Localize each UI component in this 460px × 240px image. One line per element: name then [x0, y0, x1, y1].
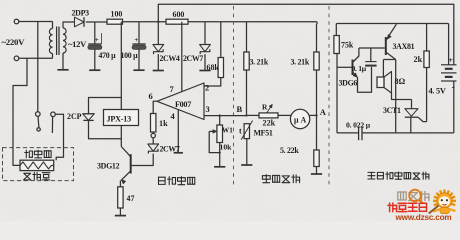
wire: 47 to ground — [119, 208, 121, 216]
wire: battery negative lead — [453, 81, 455, 133]
wire: collector coupling to 3AX81 base — [359, 47, 385, 49]
section divider 2 dashed — [328, 6, 330, 189]
svg-text:0. 022 μ: 0. 022 μ — [346, 121, 371, 130]
wire: 2k bottom to gate — [426, 68, 428, 122]
wire: emitter to 47 — [119, 181, 121, 187]
wire: W1 bottom lead — [219, 143, 221, 167]
capacitor C2 100u electrolytic — [132, 43, 145, 45]
svg-text:+: + — [449, 56, 454, 65]
wire: 5.22k to ground — [316, 167, 318, 175]
zener 2CW7 second — [148, 143, 159, 145]
potentiometer W1 wiper arrow — [209, 130, 215, 132]
node: W1 top junction — [219, 114, 221, 116]
relay contact K1 fixed right — [51, 112, 56, 117]
svg-text:2DP3: 2DP3 — [72, 9, 90, 18]
svg-text:100 μ: 100 μ — [121, 51, 139, 60]
wire: speaker top tap — [383, 59, 395, 61]
svg-text:75k: 75k — [341, 41, 354, 50]
transistor Q1 3DG12 collector — [121, 147, 130, 157]
svg-text:2CW7: 2CW7 — [160, 145, 180, 154]
zener 2CW7 first top lead — [204, 22, 206, 45]
wire: secondary bottom lead — [62, 53, 64, 70]
node A junction — [315, 114, 317, 116]
wire: meter to node A — [310, 114, 317, 116]
wire: SCR anode lead — [411, 100, 413, 109]
resistor 47 — [118, 187, 123, 208]
svg-text:F007: F007 — [175, 100, 191, 109]
svg-text:0. 1μ: 0. 1μ — [352, 64, 367, 73]
label: measure section (ce wen bu fen) — [262, 175, 299, 183]
wire: scan artifact stub — [101, 33, 103, 44]
wire: 75k top lead — [335, 24, 337, 36]
wire: 2CW7 bottom lead — [204, 54, 206, 70]
wire: outer 12V sense line top border — [158, 4, 454, 65]
svg-text:B: B — [237, 104, 243, 114]
terminal: AC input bottom — [14, 56, 19, 61]
label: heater (jia re qi) — [25, 150, 51, 158]
svg-text:3: 3 — [206, 104, 210, 114]
wire: SCR cathode — [410, 117, 412, 133]
wire: K1 right to heater — [55, 114, 63, 160]
transistor Q3 3AX81 emitter — [386, 24, 397, 40]
terminal: AC input top — [14, 19, 19, 24]
thermistor MF51 — [244, 124, 249, 139]
watermark: mascot — [429, 190, 456, 214]
ground: MF51 — [241, 164, 252, 166]
resistor R2 3.21k left — [244, 52, 249, 70]
capacitor C4 0.022u — [358, 127, 360, 141]
wire: primary bottom lead — [52, 54, 54, 59]
watermark: orange circle highlight — [409, 190, 421, 202]
relay JPX-13 — [104, 110, 139, 126]
svg-text:47: 47 — [127, 194, 135, 203]
wire: node A to 5.22k — [316, 115, 318, 150]
wire: rail 100 to 600 — [123, 21, 167, 23]
wire: rail right corner to 3.21k right — [316, 22, 318, 24]
svg-text:-: - — [452, 82, 455, 92]
wire: node B to 22k — [247, 114, 260, 116]
svg-text:3. 21k: 3. 21k — [291, 58, 310, 67]
SCR gate wire — [418, 117, 427, 121]
watermark: gray text zhao xin pian — [398, 192, 429, 201]
wire: MF51 bottom lead — [246, 139, 248, 165]
svg-text:6: 6 — [149, 91, 153, 101]
svg-text:2: 2 — [205, 83, 209, 93]
resistor R7 2k — [424, 51, 429, 68]
svg-text:3CT1: 3CT1 — [383, 106, 401, 115]
svg-text:3. 21k: 3. 21k — [250, 58, 269, 67]
svg-text:www.dzsc.com: www.dzsc.com — [395, 213, 452, 221]
wire: alarm bottom left segment — [337, 132, 358, 134]
wire: battery positive lead — [448, 24, 450, 65]
relay contact K1 blade — [37, 116, 40, 127]
transformer T1 primary winding — [49, 29, 52, 35]
wire: op-amp pin4 to ground — [177, 110, 179, 153]
relay contact K1 fixed left — [36, 112, 41, 117]
wire: alarm supply rail — [336, 23, 448, 25]
diode 2DP3 — [75, 17, 85, 27]
zener 2CW4 — [153, 44, 164, 46]
wire: 2CW4 top lead — [157, 22, 159, 45]
heater element zigzag — [20, 162, 54, 169]
wire: top terminal to transformer primary — [19, 21, 53, 23]
resistor R3 3.21k right — [314, 52, 319, 70]
wire: secondary top to diode — [63, 22, 75, 28]
wire: bottom terminal to primary bottom — [19, 57, 53, 59]
node: junction rail / sense line / 2CW4 — [157, 21, 159, 23]
svg-text:3DG6: 3DG6 — [339, 79, 358, 88]
watermark: red text weiku yixia — [388, 203, 427, 212]
label: control section (kong wen bu fen) — [159, 177, 195, 185]
capacitor C3 0.1u — [365, 61, 376, 63]
svg-text:+: + — [95, 35, 99, 44]
section divider 1 dashed — [233, 6, 235, 189]
svg-text:100: 100 — [111, 10, 123, 19]
zener 2CW7 first — [200, 44, 211, 46]
wire: op-amp pin3 to bridge node B — [204, 115, 247, 117]
wire: collector column — [395, 60, 397, 133]
wire: W1 wiper tie-down — [209, 131, 220, 152]
ground: W1 — [214, 166, 225, 168]
wire: 68k bottom to op-amp pin2 — [204, 78, 221, 87]
capacitor C1 470u lead — [94, 22, 96, 44]
resistor R5 5.22k — [314, 150, 319, 167]
svg-text:R: R — [262, 103, 268, 112]
node: test point circle — [151, 133, 155, 137]
ground: 5.22k — [311, 173, 322, 175]
resistor 100 — [107, 19, 123, 24]
svg-text:1k: 1k — [159, 119, 168, 128]
wire: base wire into bar — [350, 66, 353, 68]
svg-text:3DG12: 3DG12 — [97, 162, 120, 171]
wire: base tee to 3DG6 — [337, 66, 350, 68]
speaker LS 8ohm — [377, 77, 384, 88]
transistor Q2 3DG6 base bar — [352, 60, 354, 76]
heater RH box — [20, 160, 54, 170]
svg-text:~220V: ~220V — [2, 37, 26, 47]
ground: 2CW4 — [153, 70, 164, 72]
resistor R2 3.21k left top lead — [246, 22, 248, 52]
wire: 1k bottom to junction circle — [152, 132, 154, 133]
wire: 68k top lead — [220, 22, 222, 58]
transistor Q2 3DG6 emitter — [353, 72, 358, 78]
transistor Q3 3AX81 base bar — [385, 37, 387, 55]
svg-text:~12V: ~12V — [68, 39, 87, 49]
resistor 68k — [218, 58, 223, 78]
resistor R6 75k — [334, 36, 339, 54]
label: thermostat (heng wen xiang) — [23, 172, 50, 180]
node: W1 bottom junction — [219, 152, 221, 154]
wire: K1 left to 220V rail — [37, 22, 39, 112]
resistor 600 — [166, 19, 188, 24]
svg-text:4. 5V: 4. 5V — [429, 87, 446, 96]
battery BT1 4.5V — [441, 64, 457, 66]
wire: 3.21k left to node B — [246, 70, 248, 116]
ground: C2 — [133, 69, 144, 71]
resistor R4 22k adjustable — [259, 113, 278, 118]
diode 2CP — [83, 113, 95, 115]
relay JPX-13 coil wire — [120, 98, 122, 147]
wire: rail 600 to right end — [188, 21, 317, 23]
svg-text:68k: 68k — [207, 63, 220, 72]
svg-text:2CW4: 2CW4 — [160, 54, 180, 63]
wire: 2CW7 to base node — [132, 154, 154, 166]
SCR 3CT1 — [405, 109, 418, 117]
wire: W1 top lead — [219, 116, 221, 125]
thermostat box dashed — [3, 148, 74, 181]
svg-text:22k: 22k — [263, 119, 276, 128]
svg-text:600: 600 — [173, 10, 185, 19]
ground: C1 — [89, 69, 100, 71]
wire: 75k column down — [336, 54, 338, 133]
svg-text:10k: 10k — [220, 143, 233, 152]
ground: op-amp pin4 — [174, 152, 183, 154]
op-amp U1 F007 — [157, 83, 204, 120]
wire: emitter down and over to 0.1u bottom — [358, 67, 372, 92]
svg-text:t: t — [239, 127, 242, 136]
svg-text:2k: 2k — [414, 55, 423, 64]
wire: speaker bottom lead — [392, 93, 412, 100]
capacitor C1 470u electrolytic — [88, 43, 101, 45]
transistor Q3 3AX81 collector — [386, 52, 396, 60]
svg-text:A: A — [320, 107, 327, 117]
svg-text:3AX81: 3AX81 — [393, 42, 415, 51]
diode 2CP top wire — [89, 98, 122, 114]
svg-text:W1: W1 — [222, 127, 233, 135]
wire: diode to resistor 100 — [86, 21, 107, 23]
meter M1 uA — [290, 109, 309, 128]
svg-text:470 μ: 470 μ — [99, 51, 117, 60]
transistor Q2 3DG6 collector — [353, 48, 359, 63]
transistor Q1 3DG12 base bar — [130, 154, 132, 173]
transformer T1 core — [56, 27, 58, 56]
wire: relay feed from rail — [120, 22, 122, 98]
wire: 22k to meter — [278, 114, 291, 116]
resistor 1k — [151, 114, 156, 133]
ground: emitter resistor 47 — [115, 215, 126, 217]
svg-text:5. 22k: 5. 22k — [280, 146, 299, 155]
ground: transformer secondary — [57, 69, 68, 71]
wire: op-amp pin7 supply — [181, 22, 183, 92]
transformer T1 secondary winding — [63, 28, 66, 34]
ground: 2CW7 — [199, 70, 210, 72]
svg-text:2CW7: 2CW7 — [183, 54, 203, 63]
wire: C1 bottom lead — [94, 49, 96, 71]
wire: 2k top lead — [426, 24, 428, 52]
svg-text:8Ω: 8Ω — [395, 77, 406, 86]
svg-text:+: + — [134, 35, 138, 44]
wire: C2 bottom lead — [138, 49, 140, 71]
wire: 2CP bottom loop — [89, 120, 122, 138]
wire: op-amp output pin6 to 1k — [153, 101, 157, 113]
svg-text:μ: μ — [294, 115, 299, 124]
capacitor C3 0.1u top lead — [370, 48, 372, 61]
capacitor C2 100u lead — [138, 22, 140, 44]
potentiometer W1 10k — [217, 125, 223, 143]
label: alarm section (ting dian bao jing qi bu fen) — [368, 172, 429, 179]
wire: alarm bottom right segment — [362, 132, 454, 134]
svg-text:A: A — [301, 115, 307, 124]
wire: primary top lead — [52, 22, 54, 29]
wire: 2CW4 bottom lead — [157, 54, 159, 70]
wire: heater left to AC bottom — [13, 58, 27, 165]
svg-text:MF51: MF51 — [254, 129, 273, 138]
wire: 3.21k right to node A — [316, 70, 318, 115]
svg-text:JPX-13: JPX-13 — [107, 115, 132, 124]
svg-text:2CP: 2CP — [67, 112, 82, 121]
relay contact K1 right prong — [51, 117, 53, 133]
node B junction — [245, 114, 247, 116]
wire: junction circle to 2CW7 second — [152, 138, 154, 144]
transistor Q1 3DG12 emitter — [121, 171, 131, 181]
